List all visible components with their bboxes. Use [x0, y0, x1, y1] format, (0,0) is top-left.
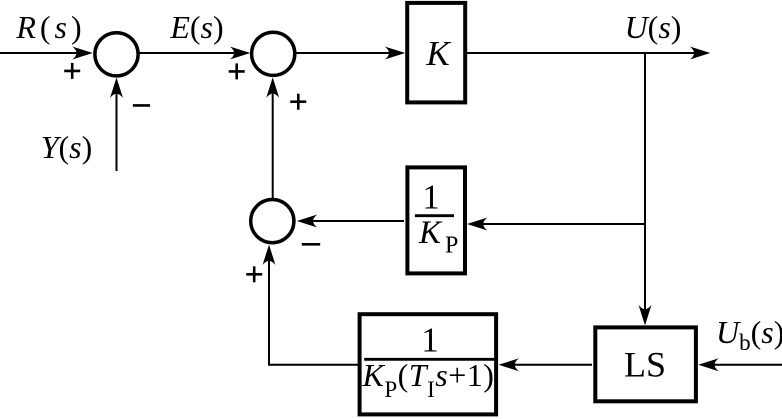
wire branch to block 1/KP	[471, 223, 645, 225]
svg-text:LS: LS	[624, 345, 666, 385]
sign + at summing junction S2 left	[229, 63, 245, 79]
wire E(s) from S1 to S2	[139, 52, 247, 54]
sign + at summing junction S1 left	[64, 63, 80, 79]
block 1/(KP(TIs+1))	[360, 314, 497, 414]
summing junction S2	[252, 32, 295, 75]
wire S2 to block K	[295, 52, 401, 54]
svg-text:K: K	[425, 34, 451, 73]
sign + at summing junction S3 bottom	[246, 266, 262, 282]
svg-text:KP: KP	[418, 215, 458, 259]
wire 1/KP to summing junction S3	[300, 220, 404, 222]
svg-text:U(s): U(s)	[625, 9, 682, 45]
summing junction S1	[95, 33, 138, 76]
sign + at summing junction S2 bottom	[290, 94, 306, 110]
svg-text:1: 1	[422, 178, 440, 217]
svg-text:Ub(s): Ub(s)	[716, 314, 782, 355]
summing junction S3	[251, 200, 294, 243]
wire feedback from bottom block to S3	[269, 248, 358, 365]
sign - at summing junction S1 bottom	[133, 104, 150, 107]
wire Y(s) input	[116, 80, 118, 171]
sign - at summing junction S3 right	[302, 243, 320, 246]
wire S3 up to S2	[272, 81, 274, 198]
svg-text:E(s): E(s)	[169, 9, 223, 45]
svg-text:Y(s): Y(s)	[41, 129, 93, 165]
wire LS to bottom block	[503, 364, 592, 366]
block 1/KP	[407, 167, 465, 273]
svg-text:KP(TIs+1): KP(TIs+1)	[362, 357, 495, 402]
svg-text:1: 1	[421, 321, 439, 360]
wire input Ub(s)	[703, 364, 782, 366]
svg-text:R(s): R(s)	[15, 9, 85, 45]
block LS	[595, 327, 696, 401]
block K	[407, 3, 465, 103]
wire input R(s)	[0, 52, 89, 54]
wire branch from U(s) down to LS	[644, 53, 646, 321]
wire K to output U(s)	[467, 52, 707, 54]
